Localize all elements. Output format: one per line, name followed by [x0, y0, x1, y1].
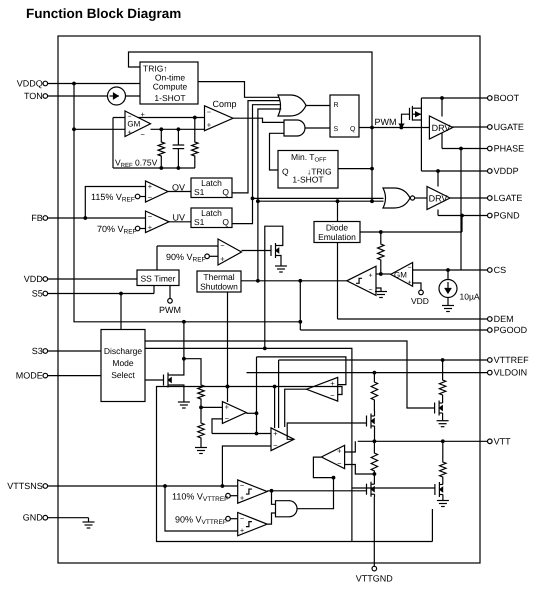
- resistor R6: [373, 373, 375, 380]
- wire Q2 drain to DEM bus: [264, 319, 266, 348]
- svg-text:+: +: [207, 120, 212, 129]
- wire UV to latch: [169, 221, 191, 223]
- pin PGND: [438, 215, 487, 217]
- wire bus B end: [431, 509, 433, 542]
- svg-text:Comp: Comp: [213, 99, 237, 109]
- wire discharge bus A: [145, 341, 435, 408]
- svg-text:Diode: Diode: [326, 223, 348, 233]
- or-gate G1 set-reset R: [278, 95, 306, 116]
- ground Q2: [279, 256, 281, 267]
- svg-text:PWM: PWM: [159, 305, 181, 315]
- wire latch1 Q to OR: [232, 101, 280, 193]
- svg-text:VDDQ: VDDQ: [17, 79, 43, 89]
- wire PHASE to CS sense: [460, 149, 462, 271]
- svg-text:PGND: PGND: [494, 211, 521, 221]
- svg-text:−: −: [128, 114, 132, 121]
- svg-text:Function Block Diagram: Function Block Diagram: [26, 6, 181, 21]
- pin VTTREF: [279, 359, 488, 361]
- svg-text:FB: FB: [31, 213, 43, 223]
- op-amp A3 vttref out: [307, 377, 338, 401]
- svg-text:115% VREF: 115% VREF: [91, 192, 135, 204]
- wire DRV2 bottom to PGND: [437, 210, 439, 216]
- wire C110 out to M2 gate: [267, 490, 366, 492]
- svg-text:Q: Q: [222, 187, 229, 197]
- pin PHASE: [442, 148, 487, 150]
- svg-text:VREF 0.75V: VREF 0.75V: [115, 158, 158, 170]
- pin S3: [48, 350, 101, 352]
- svg-text:110% VVTTREF: 110% VVTTREF: [172, 492, 228, 504]
- node divider mid: [199, 406, 203, 410]
- amp GM2 current sense: [391, 263, 413, 287]
- pin VLDOIN: [247, 372, 488, 374]
- svg-text:+: +: [220, 255, 225, 264]
- svg-text:−: −: [337, 459, 342, 468]
- driver DRV1: [429, 116, 452, 139]
- wire compensation top rail: [113, 117, 205, 119]
- node S5 branch: [119, 292, 123, 296]
- pin LGATE: [450, 197, 487, 199]
- svg-text:Mode: Mode: [112, 358, 134, 368]
- ground M4: [437, 500, 449, 502]
- wire A1 output: [246, 412, 256, 414]
- transistor Q2 pass: [270, 245, 272, 256]
- svg-text:VDD: VDD: [24, 274, 44, 284]
- svg-text:TON: TON: [24, 91, 43, 101]
- wire thermal down: [227, 292, 229, 402]
- wire ZC to OR1: [258, 109, 281, 281]
- wire TRIG input: [338, 168, 372, 170]
- block thermal shutdown: [197, 271, 241, 292]
- and-gate G4: [276, 501, 298, 517]
- svg-text:+: +: [240, 526, 245, 535]
- wire A4 bottom input: [345, 465, 375, 475]
- node VDDQ junction: [72, 82, 76, 86]
- svg-text:Emulation: Emulation: [318, 232, 356, 242]
- node VTT tap right: [441, 439, 445, 443]
- node VTT tap: [373, 439, 377, 443]
- wire OR3 to DRV2: [415, 197, 427, 199]
- svg-text:OV: OV: [172, 182, 185, 192]
- wire OR to latch R: [306, 105, 330, 107]
- svg-text:1-SHOT: 1-SHOT: [154, 93, 185, 103]
- svg-text:Compute: Compute: [153, 82, 188, 92]
- pin GND: [48, 517, 89, 519]
- pin S5: [48, 293, 154, 295]
- svg-text:UGATE: UGATE: [494, 122, 524, 132]
- driver DRV2: [427, 187, 450, 210]
- svg-text:−: −: [369, 287, 373, 294]
- wire to pass FET gate: [242, 250, 272, 252]
- ground M3: [437, 420, 449, 422]
- svg-text:CS: CS: [494, 265, 507, 275]
- reference 110% VVTTREF: [226, 493, 231, 498]
- comparator C110: [238, 480, 268, 503]
- svg-text:−: −: [148, 212, 153, 221]
- wire A1 feedback: [212, 419, 222, 434]
- wire diode emulation to DEM: [337, 243, 339, 320]
- resistor R2 compensation: [193, 116, 197, 120]
- svg-text:VTTREF: VTTREF: [494, 355, 530, 365]
- svg-text:+: +: [273, 429, 278, 438]
- svg-text:10µA: 10µA: [460, 292, 480, 302]
- comparator C90b: [238, 513, 268, 536]
- reference 70% VREF: [135, 226, 140, 231]
- wire ZC output to thermal: [241, 280, 347, 282]
- svg-text:S: S: [334, 126, 339, 133]
- svg-text:VLDOIN: VLDOIN: [494, 368, 528, 378]
- svg-text:LGATE: LGATE: [494, 193, 523, 203]
- ground Q3: [172, 385, 184, 402]
- wire zero-cross node: [376, 273, 391, 275]
- svg-text:−: −: [225, 414, 230, 423]
- svg-text:DRV: DRV: [429, 194, 448, 204]
- wire AND out up: [297, 478, 333, 509]
- latch L2: [191, 208, 232, 228]
- node FB junction: [83, 216, 87, 220]
- wire C110 to AND: [272, 491, 276, 505]
- node VTTSNS branch: [163, 484, 167, 488]
- block diode emulation: [314, 222, 360, 243]
- reference 90% VVTTREF: [226, 516, 231, 521]
- block SS timer: [137, 270, 179, 286]
- wire GM2 plus to VDD: [413, 283, 421, 290]
- svg-text:PWM: PWM: [375, 117, 397, 127]
- wire GM plus input: [74, 128, 125, 130]
- wire A2 out to M1 gate: [287, 423, 366, 439]
- transistor Q3 discharge: [163, 375, 165, 386]
- capacitor C1 compensation: [177, 127, 181, 131]
- svg-text:+: +: [148, 182, 153, 191]
- or-gate G3 lgate: [383, 188, 410, 208]
- pin FB: [48, 217, 146, 219]
- svg-text:−: −: [207, 108, 212, 117]
- pin PGOOD: [300, 329, 487, 331]
- pin CS: [413, 269, 488, 271]
- svg-text:R: R: [334, 102, 339, 109]
- wire A4 top input: [345, 441, 356, 452]
- resistor R7: [373, 441, 375, 451]
- svg-text:DRV: DRV: [432, 123, 451, 133]
- pin DEM: [338, 318, 488, 320]
- wire VTTREF drop to A2: [278, 360, 280, 428]
- svg-text:DEM: DEM: [494, 314, 514, 324]
- resistor R4 divider: [198, 383, 204, 401]
- comparator OV 115%: [146, 181, 169, 202]
- svg-text:S5: S5: [32, 289, 43, 299]
- latch L1: [191, 178, 232, 198]
- svg-text:BOOT: BOOT: [494, 93, 520, 103]
- current source TON: [108, 87, 126, 105]
- transistor M1 source: [366, 416, 368, 427]
- wire A2 plus input: [212, 433, 271, 435]
- svg-text:Shutdown: Shutdown: [200, 282, 238, 292]
- pin MODE: [48, 375, 101, 377]
- resistor R1 compensation: [159, 127, 163, 131]
- wire DRV2 supply: [437, 171, 439, 187]
- resistor R5 divider: [198, 421, 204, 440]
- resistor R3: [380, 232, 382, 242]
- pin BOOT: [421, 97, 487, 99]
- one-shot U1 On-time Compute: [140, 62, 198, 104]
- svg-text:−: −: [273, 441, 278, 450]
- pin VTT: [358, 440, 488, 442]
- svg-text:UV: UV: [173, 213, 186, 223]
- wire A3 minus bus: [157, 387, 433, 542]
- svg-text:VTTSNS: VTTSNS: [7, 481, 43, 491]
- op-amp GM1 error amplifier: [125, 111, 151, 137]
- wire Q to AND: [270, 133, 285, 170]
- wire compensation left leg: [112, 118, 114, 169]
- wire diode emulation top: [337, 201, 339, 221]
- comparator UV 70%: [146, 211, 170, 233]
- svg-text:SS Timer: SS Timer: [141, 274, 176, 284]
- wire M4 gate: [352, 487, 435, 489]
- svg-text:VTTGND: VTTGND: [356, 574, 393, 584]
- wire ref drop: [256, 357, 258, 434]
- ground ZC minus: [376, 288, 381, 292]
- svg-text:VDD: VDD: [411, 296, 429, 306]
- wire discharge bus B: [145, 348, 352, 541]
- svg-text:−: −: [240, 481, 245, 490]
- comparator C90 90% VREF: [218, 239, 242, 265]
- wire ref link to A3 plus: [257, 357, 346, 385]
- transistor M3 vttref discharge: [434, 403, 436, 414]
- svg-text:VTT: VTT: [494, 436, 512, 446]
- wire OV to latch: [168, 191, 191, 193]
- pin VDD: [48, 278, 137, 280]
- svg-text:+: +: [408, 280, 412, 287]
- node VTTREF tap: [441, 358, 445, 362]
- wire GM output rail: [151, 128, 205, 130]
- svg-text:−: −: [330, 391, 335, 400]
- resistor R8: [442, 360, 444, 378]
- svg-text:Select: Select: [111, 370, 135, 380]
- wire divider to op1: [201, 406, 222, 408]
- ground GND pin: [88, 518, 90, 522]
- sr-latch U2: [330, 95, 359, 137]
- wire FB to OV: [85, 187, 145, 219]
- svg-text:+: +: [240, 493, 245, 502]
- op-amp A4 vtt sink amp: [321, 445, 344, 468]
- pin UGATE: [452, 126, 487, 128]
- wire bus drop to A2: [274, 387, 276, 429]
- wire to PGND node: [461, 216, 463, 233]
- svg-text:Q: Q: [222, 217, 229, 227]
- svg-text:PGOOD: PGOOD: [494, 325, 528, 335]
- comparator ZC zero-cross: [347, 266, 376, 295]
- wire OV UV to lgate or: [253, 197, 384, 199]
- svg-text:+: +: [225, 403, 230, 412]
- transistor Q1 bootstrap switch: [409, 108, 411, 120]
- svg-text:+: +: [369, 273, 373, 280]
- node VLDOIN tap: [373, 371, 377, 375]
- op-amp A2 vtt amp: [271, 428, 294, 451]
- wire SS timer S5 leg: [153, 286, 155, 294]
- svg-text:90% VREF: 90% VREF: [166, 252, 206, 264]
- wire BOOT rail: [420, 98, 422, 171]
- svg-text:S1: S1: [194, 217, 205, 227]
- transistor M4 vtt discharge: [434, 484, 436, 495]
- pin VTTSNS: [48, 485, 238, 487]
- wire AND to latch S: [305, 127, 330, 129]
- wire PWM: [359, 127, 430, 129]
- wire PWM output stub: [169, 286, 171, 299]
- svg-text:MODE: MODE: [16, 371, 43, 381]
- svg-text:1-SHOT: 1-SHOT: [292, 175, 323, 185]
- current source I1 10uA: [446, 268, 450, 272]
- svg-text:−: −: [141, 130, 146, 139]
- svg-text:−: −: [240, 514, 245, 523]
- wire SS to comparator: [156, 246, 158, 270]
- svg-text:Q: Q: [282, 167, 289, 177]
- svg-text:−: −: [148, 193, 153, 202]
- one-shot U3 Min Toff: [278, 151, 338, 189]
- wire A3 out: [285, 389, 307, 427]
- svg-text:Q: Q: [350, 126, 356, 133]
- pin VDDQ: [48, 83, 140, 85]
- wire one-shot output to OR: [198, 82, 280, 98]
- svg-text:S3: S3: [32, 346, 43, 356]
- svg-text:GM: GM: [394, 271, 407, 280]
- wire Q2 drain loop: [265, 226, 283, 319]
- wire Comp output to AND: [233, 118, 284, 122]
- svg-text:Thermal: Thermal: [203, 272, 234, 282]
- svg-text:GND: GND: [23, 513, 44, 523]
- svg-text:−: −: [408, 265, 412, 272]
- svg-text:Discharge: Discharge: [104, 346, 143, 356]
- wire TRIG feedback: [129, 52, 373, 201]
- transistor M2 sink: [366, 484, 368, 495]
- node PWM feedback junctions: [370, 126, 374, 130]
- wire VDDQ rail: [74, 84, 300, 322]
- op-amp A1 vttref buffer: [222, 402, 246, 424]
- wire PGOOD branch: [298, 279, 302, 283]
- svg-text:S1: S1: [194, 187, 205, 197]
- reference 90% VREF: [205, 254, 210, 259]
- ground divider: [195, 447, 207, 449]
- pin VTTGND: [373, 497, 375, 566]
- outer boundary box: [58, 36, 480, 563]
- wire diode emulation output: [360, 231, 462, 233]
- svg-text:VDDP: VDDP: [494, 166, 519, 176]
- svg-text:−: −: [220, 241, 225, 250]
- and-gate G2: [284, 120, 305, 136]
- svg-text:+: +: [337, 447, 342, 456]
- wire A4 output: [313, 457, 333, 478]
- wire DRV1 bottom to PHASE: [441, 133, 443, 149]
- pin TON: [48, 95, 140, 97]
- svg-text:+: +: [141, 110, 146, 119]
- svg-text:90% VVTTREF: 90% VVTTREF: [175, 515, 227, 527]
- svg-text:+: +: [148, 223, 153, 232]
- wire A2 minus from VTTSNS: [221, 484, 225, 488]
- wire Q3 drain: [172, 322, 184, 375]
- wire divider feed: [184, 359, 201, 383]
- svg-text:GM: GM: [127, 120, 140, 129]
- wire latch2 Q to OR: [232, 105, 281, 224]
- svg-text:70% VREF: 70% VREF: [97, 224, 137, 236]
- resistor R9: [442, 441, 444, 460]
- reference 115% VREF: [135, 194, 140, 199]
- block discharge mode select: [101, 330, 145, 402]
- wire reference bottom rail: [113, 167, 195, 169]
- svg-text:+: +: [128, 130, 132, 137]
- wire C90b to AND: [267, 513, 275, 524]
- svg-text:PHASE: PHASE: [494, 144, 525, 154]
- pin VDDP: [421, 170, 487, 172]
